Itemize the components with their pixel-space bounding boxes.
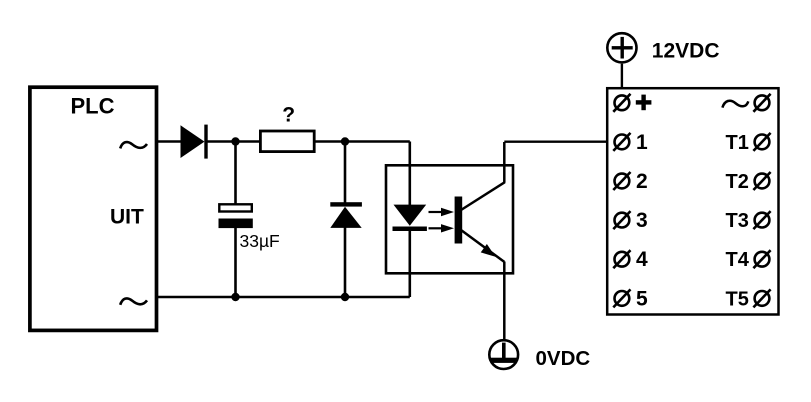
diode D1 cathode bar: [204, 125, 207, 159]
svg-text:5: 5: [636, 287, 648, 310]
terminal block box: [607, 88, 778, 314]
node junction bottom of diode D2 branch: [341, 293, 349, 301]
terminal AC label tilde: [722, 101, 748, 108]
phototransistor emitter arrowhead: [481, 244, 499, 261]
terminal screw row5 right: [753, 250, 770, 268]
terminal screw row1 right: [753, 94, 770, 112]
terminal screw row4 left: [613, 211, 630, 229]
svg-text:T3: T3: [726, 210, 749, 232]
svg-text:UIT: UIT: [110, 206, 144, 229]
capacitor C1 top plate: [219, 204, 252, 211]
svg-text:T4: T4: [726, 249, 750, 271]
svg-text:1: 1: [636, 131, 648, 154]
LED triangle: [394, 205, 427, 226]
terminal screw row2 left: [613, 133, 630, 151]
supply plus horizontal stroke: [612, 46, 633, 49]
svg-text:T1: T1: [726, 132, 749, 154]
capacitor C1 bottom plate: [219, 219, 253, 229]
LED cathode bar: [393, 227, 427, 232]
terminal screw row3 right: [753, 172, 770, 190]
wire PLC to diode D1: [158, 140, 181, 142]
earth symbol stem: [502, 343, 506, 359]
terminal plus label: [636, 95, 652, 111]
svg-text:T2: T2: [726, 171, 749, 193]
wire D1 to resistor: [208, 140, 260, 142]
wire diode D2 branch upper: [344, 142, 347, 204]
supply plus vertical stroke: [621, 37, 624, 59]
bottom rail wire: [158, 296, 410, 298]
PLC box: [30, 87, 157, 330]
svg-text:2: 2: [636, 170, 648, 193]
wire LED cathode to bottom rail: [408, 230, 411, 297]
terminal screw row6 right: [753, 289, 770, 307]
diode D2 triangle: [330, 207, 361, 228]
svg-text:PLC: PLC: [71, 94, 115, 119]
diode D2 cathode bar: [330, 202, 362, 206]
wire capacitor branch lower: [234, 228, 237, 297]
optocoupler U1 box: [386, 165, 513, 273]
terminal screw row2 right: [753, 133, 770, 151]
wire capacitor branch upper: [234, 142, 237, 205]
svg-text:33µF: 33µF: [240, 231, 280, 251]
wire emitter down to 0VDC: [503, 262, 506, 340]
0VDC earth symbol circle: [489, 340, 518, 369]
terminal screw row4 right: [753, 211, 770, 229]
resistor R? body: [260, 131, 314, 152]
svg-text:3: 3: [636, 209, 648, 232]
wire collector up: [503, 142, 506, 183]
phototransistor emitter lead: [461, 230, 504, 262]
node junction top of capacitor branch: [231, 137, 239, 145]
terminal screw row3 left: [613, 172, 630, 190]
wire LED anode drop: [408, 142, 411, 206]
phototransistor collector lead: [461, 182, 505, 210]
phototransistor Q1 base bar: [455, 197, 463, 244]
terminal screw row6 left: [613, 289, 630, 307]
light arrow upper: [429, 208, 455, 216]
AC symbol at PLC top output: [120, 142, 147, 148]
wire resistor to LED branch: [316, 140, 410, 142]
svg-text:T5: T5: [726, 288, 749, 310]
svg-text:4: 4: [636, 248, 648, 271]
earth symbol bar: [490, 358, 517, 363]
terminal screw row5 left: [613, 250, 630, 268]
node junction top of diode D2 branch: [341, 137, 349, 145]
node junction bottom of capacitor branch: [231, 293, 239, 301]
wire 12VDC to terminal plus: [621, 64, 623, 96]
wire diode D2 branch lower: [344, 227, 347, 297]
svg-text:?: ?: [282, 104, 295, 127]
light arrow lower: [429, 224, 455, 232]
12VDC supply symbol circle: [607, 33, 636, 62]
terminal screw row1 left: [613, 94, 630, 112]
AC symbol at PLC bottom output: [120, 298, 147, 304]
diode D1 triangle: [181, 125, 205, 158]
wire collector to terminal 1: [504, 140, 614, 142]
svg-text:12VDC: 12VDC: [652, 40, 720, 63]
svg-text:0VDC: 0VDC: [536, 347, 591, 370]
